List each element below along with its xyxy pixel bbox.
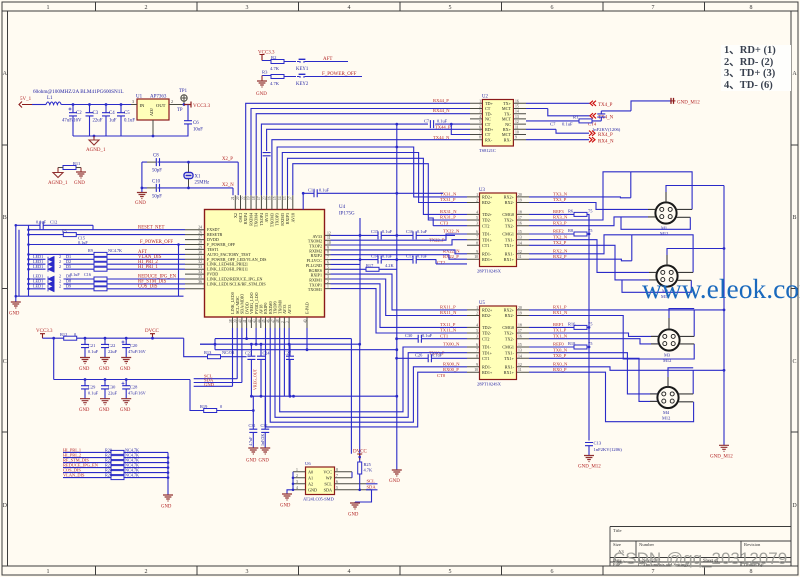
wire RXIM4 to U2 pin2 bbox=[251, 109, 470, 196]
wire TXOP1 to U5 pin1 bbox=[331, 284, 468, 328]
svg-text:18: 18 bbox=[518, 210, 522, 214]
svg-text:REF3: REF3 bbox=[553, 209, 564, 214]
ground GND bus x397 bbox=[389, 470, 402, 484]
svg-text:RD2+: RD2+ bbox=[482, 308, 493, 313]
svg-text:3: 3 bbox=[479, 110, 481, 114]
capacitor C10 50pF bbox=[147, 180, 162, 200]
svg-text:R26: R26 bbox=[105, 473, 112, 478]
resistor R19 0 bbox=[190, 380, 253, 413]
svg-text:RX00_P: RX00_P bbox=[443, 367, 459, 372]
svg-text:CT1: CT1 bbox=[482, 243, 489, 248]
svg-text:TXOM1: TXOM1 bbox=[308, 287, 322, 292]
wire TXOP0 to U5 pin7 bbox=[275, 328, 467, 417]
svg-text:RD2+: RD2+ bbox=[482, 195, 493, 200]
svg-text:4.7K: 4.7K bbox=[270, 81, 280, 86]
svg-text:20: 20 bbox=[236, 196, 240, 200]
svg-text:14: 14 bbox=[278, 196, 282, 200]
svg-text:9: 9 bbox=[327, 246, 329, 250]
svg-text:TD1-: TD1- bbox=[482, 345, 492, 350]
junction dot RX0_N shield bus bbox=[723, 369, 726, 372]
wire left bus verticals bbox=[16, 225, 29, 302]
svg-text:RX1+: RX1+ bbox=[504, 257, 515, 262]
wire RX1_P feed M3 top loop bbox=[529, 309, 724, 311]
ground GND C33 bbox=[99, 399, 110, 413]
wire riser x178 bbox=[178, 245, 180, 297]
svg-text:GND: GND bbox=[280, 504, 291, 509]
svg-text:REF2: REF2 bbox=[553, 229, 564, 234]
svg-text:TX0_P: TX0_P bbox=[553, 353, 567, 358]
svg-text:RX1-: RX1- bbox=[505, 252, 515, 257]
svg-text:NC/0R: NC/0R bbox=[222, 350, 235, 355]
wire U6 gnd right bbox=[355, 490, 372, 503]
svg-text:4.7uF: 4.7uF bbox=[248, 436, 253, 446]
capacitor C28 47uF/16V bbox=[122, 380, 147, 399]
wire AV33 to U2 pin6 bbox=[267, 129, 470, 195]
svg-text:15: 15 bbox=[273, 196, 277, 200]
wire PLLGND down bus bbox=[331, 218, 361, 344]
svg-text:C30: C30 bbox=[108, 385, 116, 390]
wire TX0_N feed M4 bbox=[529, 353, 657, 394]
svg-text:HI_PRI_1: HI_PRI_1 bbox=[138, 265, 158, 270]
svg-text:C10: C10 bbox=[152, 180, 161, 185]
wire M1 shield bbox=[666, 186, 724, 193]
junction dot REF1 bus bbox=[588, 326, 591, 329]
junction dots caps row bbox=[250, 343, 291, 398]
svg-text:C: C bbox=[792, 359, 796, 365]
svg-text:43: 43 bbox=[253, 319, 257, 323]
net AFT bbox=[307, 57, 348, 62]
svg-text:36: 36 bbox=[198, 280, 202, 284]
port DVCC rail bbox=[145, 329, 160, 338]
ground GND left bus bbox=[9, 302, 21, 317]
svg-text:6: 6 bbox=[476, 230, 478, 234]
U4 bottom pin names bbox=[230, 292, 310, 314]
wire CT3 jog to U3 pin3 bbox=[428, 218, 467, 226]
svg-text:F_POWER_OFF: F_POWER_OFF bbox=[322, 72, 357, 77]
svg-text:49: 49 bbox=[304, 319, 308, 323]
svg-text:4: 4 bbox=[479, 115, 481, 119]
svg-text:ADJ: ADJ bbox=[149, 108, 154, 116]
ground GND key bbox=[256, 76, 267, 98]
svg-text:C4: C4 bbox=[109, 111, 115, 116]
capacitor C23 under IC bbox=[245, 344, 255, 396]
resistor R25 4.7K vertical bbox=[358, 460, 373, 490]
junction dot R25 SDA bbox=[358, 489, 361, 492]
svg-text:GND: GND bbox=[120, 408, 131, 413]
wire SCL row bbox=[194, 328, 238, 379]
svg-text:39: 39 bbox=[234, 319, 238, 323]
svg-text:26: 26 bbox=[198, 231, 202, 235]
capacitor C12 0.1uF bbox=[16, 219, 93, 229]
array value labels bbox=[105, 447, 139, 477]
capacitor C3 22uF bbox=[86, 105, 103, 137]
U4 left pin stubs bbox=[185, 230, 205, 289]
svg-text:14: 14 bbox=[518, 241, 522, 245]
svg-text:R3: R3 bbox=[262, 70, 268, 75]
svg-text:C32: C32 bbox=[261, 423, 268, 428]
key KEY1 bbox=[284, 59, 309, 72]
svg-text:5V_1: 5V_1 bbox=[20, 97, 32, 102]
svg-text:AT24LC05-SMD: AT24LC05-SMD bbox=[303, 497, 334, 502]
ground GND U6 right bbox=[348, 503, 360, 518]
svg-text:24: 24 bbox=[198, 226, 202, 230]
ground GND C22 bbox=[99, 358, 110, 373]
svg-text:B: B bbox=[792, 215, 796, 221]
U2 pin names bbox=[485, 101, 494, 142]
svg-text:RX1_P: RX1_P bbox=[553, 305, 567, 310]
svg-text:TX4_P: TX4_P bbox=[598, 103, 613, 108]
svg-text:11: 11 bbox=[327, 236, 331, 240]
resistor R16 REF1 bbox=[529, 321, 593, 329]
wire M2 top loop bbox=[632, 235, 693, 273]
capacitor C24 under IC bbox=[257, 344, 270, 396]
wire RXIM2 to U3 pin9 bbox=[331, 250, 468, 254]
svg-text:RX44_P: RX44_P bbox=[433, 98, 449, 103]
svg-text:Revision: Revision bbox=[744, 542, 761, 547]
wire 5V to L1 bbox=[32, 104, 46, 106]
resistor R11 0R net tie bbox=[58, 161, 81, 170]
wire AV33 row with caps C15 C16 bbox=[331, 229, 456, 239]
port VCC3.3 output bbox=[184, 102, 211, 110]
svg-text:CMG0: CMG0 bbox=[502, 212, 514, 217]
svg-text:16: 16 bbox=[515, 99, 519, 103]
svg-text:2: 2 bbox=[296, 474, 298, 478]
svg-text:AFT: AFT bbox=[323, 57, 332, 62]
svg-text:4.2K: 4.2K bbox=[385, 263, 394, 268]
svg-text:0.1uF: 0.1uF bbox=[422, 333, 433, 338]
wire TX3_N feed M1 bbox=[529, 196, 631, 199]
led D9 row COS_DIS bbox=[29, 284, 186, 292]
wire M4 shield bbox=[668, 368, 693, 377]
svg-text:28PT1024SX: 28PT1024SX bbox=[477, 269, 502, 274]
net label SDA right bbox=[366, 485, 378, 490]
resistor R1 bbox=[526, 115, 592, 123]
svg-text:AV33: AV33 bbox=[287, 305, 292, 314]
wire vertical bus x397 lower bbox=[396, 193, 398, 269]
svg-text:0.1uF: 0.1uF bbox=[437, 118, 448, 123]
ground AGND_1 tie left bbox=[48, 168, 68, 187]
U3 left pin stubs bbox=[467, 197, 480, 259]
U5 pin names bbox=[482, 308, 493, 375]
svg-text:13: 13 bbox=[518, 236, 522, 240]
junction dots on 3.3V input rail bbox=[72, 103, 123, 106]
svg-text:19: 19 bbox=[518, 312, 522, 316]
svg-text:R8: R8 bbox=[568, 228, 574, 233]
svg-text:TD2-: TD2- bbox=[482, 331, 492, 336]
ground AGND_1 bbox=[86, 136, 106, 153]
svg-text:GND: GND bbox=[308, 488, 317, 493]
svg-text:D: D bbox=[792, 503, 797, 509]
svg-text:VCC3.3: VCC3.3 bbox=[193, 103, 211, 109]
svg-text:TX2-: TX2- bbox=[505, 336, 515, 341]
U4 right pin stubs bbox=[325, 235, 331, 288]
capacitor C8 50pF bbox=[147, 154, 162, 174]
svg-text:M12: M12 bbox=[662, 416, 670, 421]
U6 pin stubs bbox=[293, 472, 372, 490]
op-amp U4 body bbox=[205, 205, 355, 317]
svg-text:27: 27 bbox=[198, 236, 202, 240]
svg-text:1: 1 bbox=[47, 569, 50, 575]
wire M1 underloop bbox=[621, 217, 690, 229]
U3 right net labels bbox=[553, 192, 568, 259]
U4 bottom pin stubs bbox=[233, 317, 308, 328]
svg-text:B: B bbox=[3, 215, 7, 221]
svg-text:X1: X1 bbox=[195, 175, 201, 180]
svg-text:RX31_N: RX31_N bbox=[440, 209, 457, 214]
svg-text:C11: C11 bbox=[308, 187, 315, 192]
svg-text:2: 2 bbox=[171, 99, 173, 104]
svg-text:TX1+: TX1+ bbox=[504, 356, 515, 361]
svg-text:TX00_N: TX00_N bbox=[443, 342, 460, 347]
svg-text:1nF2KV(1206): 1nF2KV(1206) bbox=[592, 127, 621, 132]
svg-text:U5: U5 bbox=[479, 301, 485, 306]
svg-text:RX2_N: RX2_N bbox=[553, 248, 568, 253]
U4 left pin numbers bbox=[198, 226, 202, 284]
wire row 344.2 bbox=[200, 344, 360, 459]
svg-text:15: 15 bbox=[518, 343, 522, 347]
svg-text:RX2_P: RX2_P bbox=[553, 254, 567, 259]
U6 pin numbers bbox=[296, 468, 338, 490]
svg-text:C17: C17 bbox=[406, 253, 414, 258]
svg-text:47uF/16V: 47uF/16V bbox=[62, 119, 82, 124]
U2 left net labels bbox=[433, 98, 451, 140]
key KEY2 bbox=[284, 74, 309, 87]
svg-text:AGND_1: AGND_1 bbox=[48, 181, 68, 186]
svg-text:CT2: CT2 bbox=[482, 336, 489, 341]
svg-text:0.1uF: 0.1uF bbox=[319, 187, 330, 192]
svg-text:42: 42 bbox=[248, 319, 252, 323]
svg-text:2: 2 bbox=[59, 284, 61, 289]
resistor R8 REF2 bbox=[529, 228, 593, 236]
svg-text:TX0_N: TX0_N bbox=[553, 347, 568, 352]
svg-text:AGND_1: AGND_1 bbox=[86, 148, 106, 153]
svg-text:TS8121C: TS8121C bbox=[479, 148, 496, 153]
svg-text:C22: C22 bbox=[108, 343, 115, 348]
wire vertical bus x397 bbox=[396, 124, 398, 193]
svg-text:C15: C15 bbox=[371, 229, 379, 234]
svg-text:7: 7 bbox=[327, 256, 329, 260]
svg-text:8: 8 bbox=[476, 241, 478, 245]
svg-text:3: 3 bbox=[286, 321, 290, 323]
svg-text:14: 14 bbox=[518, 354, 522, 358]
svg-text:R18: R18 bbox=[568, 341, 576, 346]
resistor R3 4.7K bbox=[262, 70, 284, 87]
svg-text:RX00_N: RX00_N bbox=[443, 361, 460, 366]
U3 right pin stubs bbox=[517, 197, 530, 259]
wire AV33 bottom risers bbox=[284, 328, 289, 396]
wire L1 to U1 bbox=[61, 104, 131, 106]
svg-text:1: 1 bbox=[296, 468, 298, 472]
U4 top pin stubs bbox=[235, 195, 292, 209]
svg-text:IP175G: IP175G bbox=[339, 212, 355, 217]
svg-text:TD1+: TD1+ bbox=[482, 350, 493, 355]
wire VCC U6 bbox=[351, 472, 353, 478]
svg-text:GND: GND bbox=[348, 513, 359, 518]
svg-text:R2: R2 bbox=[271, 55, 277, 60]
junction dot PVDD bbox=[255, 343, 258, 346]
svg-text:19: 19 bbox=[247, 196, 251, 200]
wire shield bus right bbox=[723, 186, 725, 446]
svg-text:14: 14 bbox=[515, 110, 519, 114]
resistor R5 row RESETB bbox=[29, 229, 186, 245]
svg-text:C28: C28 bbox=[130, 385, 138, 390]
svg-text:0.1uF: 0.1uF bbox=[70, 272, 80, 277]
svg-text:16: 16 bbox=[518, 222, 522, 226]
svg-text:1nF2KV(1206): 1nF2KV(1206) bbox=[594, 447, 623, 452]
svg-text:50pF: 50pF bbox=[152, 195, 162, 200]
svg-text:45: 45 bbox=[262, 319, 266, 323]
svg-text:LED1: LED1 bbox=[33, 284, 43, 289]
svg-text:47uF/16V: 47uF/16V bbox=[128, 391, 147, 396]
led D6 row REDUCE_IPG_EN bbox=[29, 274, 186, 282]
ground GND C20 bbox=[120, 358, 131, 373]
connector M2 M12 bbox=[656, 265, 677, 299]
led D5 row HI_PRI_1 bbox=[29, 264, 186, 272]
svg-text:TD2+: TD2+ bbox=[482, 325, 493, 330]
svg-text:2: 2 bbox=[327, 280, 329, 284]
wire TXOM2 to U3 pin6 bbox=[331, 234, 468, 240]
port GND_M12 top bbox=[671, 98, 700, 106]
svg-text:7: 7 bbox=[476, 349, 478, 353]
ground GND C32 bbox=[259, 448, 271, 464]
svg-text:4: 4 bbox=[476, 323, 478, 327]
svg-text:16: 16 bbox=[518, 335, 522, 339]
svg-text:C7: C7 bbox=[424, 118, 430, 123]
svg-text:RX31_P: RX31_P bbox=[440, 215, 456, 220]
svg-text:2: 2 bbox=[479, 105, 481, 109]
svg-text:TX3_P: TX3_P bbox=[553, 197, 567, 202]
svg-text:0.1uF: 0.1uF bbox=[562, 121, 573, 126]
svg-text:17: 17 bbox=[518, 216, 522, 220]
svg-text:1: 1 bbox=[476, 193, 478, 197]
svg-text:KEY2: KEY2 bbox=[296, 82, 309, 87]
svg-text:GND: GND bbox=[246, 459, 257, 464]
svg-text:REF1: REF1 bbox=[553, 322, 564, 327]
svg-text:RX2-: RX2- bbox=[505, 200, 515, 205]
wire TX2_P feed M2 bbox=[529, 245, 622, 280]
connector M1 M12 bbox=[655, 202, 676, 236]
svg-text:SDA: SDA bbox=[367, 485, 377, 490]
resistor R6 REF3 bbox=[529, 208, 593, 234]
ground GND_M12 under C13 bbox=[578, 456, 601, 470]
U4 right pin names bbox=[306, 234, 323, 292]
junction dots PLLVCC row bbox=[359, 258, 399, 261]
svg-text:A: A bbox=[792, 71, 797, 77]
wire crystal gnd bbox=[141, 162, 143, 192]
svg-text:21: 21 bbox=[231, 196, 235, 200]
net F_POWER_OFF key bbox=[307, 72, 362, 77]
wire RXIP3 to U3 pin4 bbox=[288, 158, 468, 214]
svg-text:C16: C16 bbox=[84, 272, 91, 277]
svg-text:4.7K: 4.7K bbox=[364, 468, 373, 473]
junction dot CT0 bus bbox=[395, 357, 398, 360]
svg-text:13: 13 bbox=[283, 196, 287, 200]
svg-text:C24: C24 bbox=[263, 351, 271, 356]
svg-text:U4: U4 bbox=[339, 205, 346, 210]
svg-text:20: 20 bbox=[518, 306, 522, 310]
svg-text:5: 5 bbox=[476, 216, 478, 220]
net rows resistor array bbox=[63, 452, 168, 495]
wire M3 shield bbox=[669, 309, 694, 318]
wire CT2 jog U3 bbox=[436, 259, 467, 264]
svg-text:RX2+: RX2+ bbox=[504, 308, 515, 313]
svg-text:RX-: RX- bbox=[485, 137, 493, 142]
svg-text:C21: C21 bbox=[88, 343, 95, 348]
svg-text:35: 35 bbox=[198, 275, 202, 279]
svg-text:15: 15 bbox=[518, 230, 522, 234]
wire row 338.6 bbox=[215, 339, 351, 454]
svg-text:CT1: CT1 bbox=[440, 333, 449, 338]
svg-text:NC4.7K: NC4.7K bbox=[125, 473, 139, 478]
svg-text:TX31_N: TX31_N bbox=[440, 192, 457, 197]
wire RXIM3 to U3 pin2 bbox=[282, 153, 467, 203]
svg-text:47uF/16V: 47uF/16V bbox=[128, 349, 147, 354]
U5 left pin stubs bbox=[467, 310, 480, 372]
svg-text:12: 12 bbox=[518, 363, 522, 367]
svg-text:C23: C23 bbox=[245, 351, 252, 356]
svg-text:U1: U1 bbox=[136, 95, 143, 100]
svg-text:9: 9 bbox=[515, 136, 517, 140]
wire TX2_N feed M2 bbox=[529, 240, 649, 273]
wire RX3_N feed M1 top loop bbox=[529, 172, 631, 220]
wire RXIP4 to U2 pin1 bbox=[246, 103, 470, 195]
svg-text:0.1uF: 0.1uF bbox=[36, 219, 47, 224]
wire REF bus vertical bbox=[588, 214, 590, 440]
U2 right pin stubs bbox=[513, 103, 526, 139]
svg-text:C14: C14 bbox=[371, 253, 379, 258]
junction dot M2 shield bus bbox=[723, 247, 726, 250]
svg-text:F_POWER_OFF: F_POWER_OFF bbox=[140, 240, 173, 245]
junction dot F_POWER_OFF riser bbox=[177, 243, 180, 246]
wire RXIP0 to U5 pin10 bbox=[266, 328, 468, 427]
svg-text:47: 47 bbox=[272, 319, 276, 323]
svg-text:A0: A0 bbox=[308, 470, 313, 475]
svg-text:0.1uF: 0.1uF bbox=[382, 229, 393, 234]
ground GND U6 left bbox=[280, 494, 292, 509]
svg-text:D9: D9 bbox=[66, 284, 71, 289]
svg-text:M3: M3 bbox=[664, 353, 671, 358]
svg-text:RX1+: RX1+ bbox=[504, 370, 515, 375]
wire TXOP3 to U3 pin1 bbox=[277, 147, 467, 197]
svg-text:VLAN_DIS: VLAN_DIS bbox=[63, 473, 85, 478]
svg-text:GND_M12: GND_M12 bbox=[710, 455, 733, 460]
wire RX2_P feed M2 jog bbox=[529, 259, 632, 261]
svg-text:U6: U6 bbox=[305, 461, 311, 466]
ground rail of regulator bbox=[73, 135, 153, 137]
svg-text:R5: R5 bbox=[62, 229, 67, 234]
U4 top pin names bbox=[233, 212, 295, 227]
svg-text:C12: C12 bbox=[50, 219, 57, 224]
wire U6 left common bbox=[287, 472, 293, 494]
svg-text:0.1uF: 0.1uF bbox=[417, 229, 428, 234]
ground GND C31 bbox=[246, 448, 258, 464]
ground GND C28 bbox=[120, 399, 131, 413]
junction dot top bus bbox=[395, 146, 398, 149]
junction dots left bus rows bbox=[15, 224, 30, 298]
svg-text:CMG1: CMG1 bbox=[502, 345, 514, 350]
wire TX4_N bbox=[526, 109, 614, 121]
svg-text:8: 8 bbox=[327, 251, 329, 255]
svg-text:3: 3 bbox=[476, 335, 478, 339]
wire M2 shield bbox=[667, 249, 724, 256]
wire DVDD riser bbox=[200, 328, 247, 344]
svg-text:REF0: REF0 bbox=[553, 342, 564, 347]
capacitor C22 22uF bbox=[101, 338, 118, 357]
svg-text:20: 20 bbox=[518, 193, 522, 197]
wire TX0_P feed M4 bbox=[529, 358, 657, 401]
U4 bottom pin numbers bbox=[229, 319, 308, 323]
svg-text:TX2+: TX2+ bbox=[504, 218, 515, 223]
